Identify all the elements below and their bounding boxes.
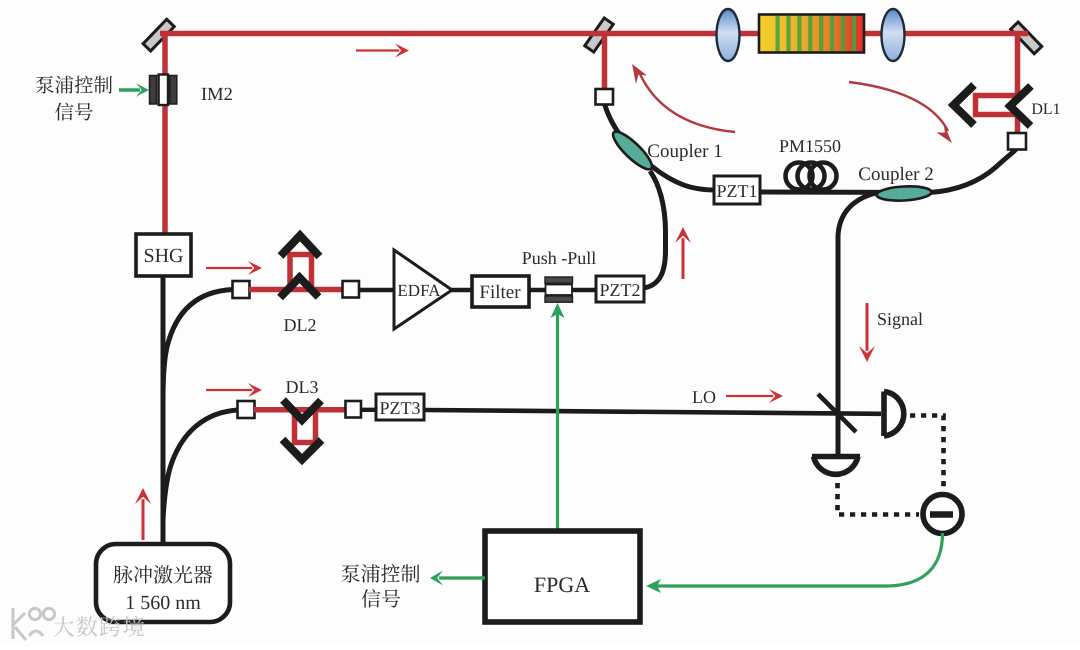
- svg-text:SHG: SHG: [143, 245, 183, 267]
- arrow: up beside PZT2 fiber (red): [675, 227, 691, 279]
- wire: EDFA to Filter: [450, 288, 474, 292]
- wire: DL3 to PZT3: [361, 408, 378, 412]
- svg-text:LO: LO: [692, 387, 716, 407]
- wire: red beam M4 down to DL1: [1015, 36, 1021, 98]
- arrow: curved counter-clockwise (left, red): [632, 64, 735, 132]
- arrowhead: green into FPGA right: [646, 579, 661, 593]
- wire: DL2 to EDFA: [359, 288, 396, 292]
- mirror M2 (output coupler, top center): [585, 18, 614, 52]
- arrow: Signal down (red): [859, 303, 875, 362]
- arrow: into DL3 (red): [206, 383, 262, 397]
- svg-text:Coupler 2: Coupler 2: [858, 164, 933, 185]
- svg-text:1 560 nm: 1 560 nm: [125, 592, 201, 614]
- wire: PZT1 to Coupler2 fiber: [760, 190, 932, 196]
- SHG box: [136, 234, 191, 276]
- connector: DL2 left: [233, 281, 250, 298]
- connector: DL3 left: [238, 401, 255, 418]
- fiber: signal branch down from junction: [838, 193, 876, 457]
- svg-text:DL2: DL2: [284, 315, 317, 335]
- svg-text:Signal: Signal: [877, 309, 923, 329]
- label: pulsed laser (Chinese): [114, 565, 213, 583]
- beamsplitter: [818, 394, 856, 432]
- photodetector PD2 (bottom): [812, 457, 860, 475]
- svg-text:FPGA: FPGA: [534, 572, 590, 597]
- arrow: LO direction (red): [726, 389, 783, 403]
- label: pump control (Chinese) line1: [36, 75, 112, 93]
- arrow: up from laser (red): [135, 488, 151, 540]
- watermark text: [53, 616, 144, 637]
- arrowhead: green into push-pull: [551, 303, 565, 318]
- arrow: into DL2 (red): [206, 261, 262, 275]
- connector: DL1 bottom: [1008, 133, 1026, 150]
- prism: DL2 bottom retroreflector: [280, 278, 319, 298]
- arrow: curved clockwise (right, red): [849, 82, 952, 143]
- arrow: pump control signal into IM2 (green): [119, 83, 149, 97]
- fiber coil PM1550: [786, 163, 837, 190]
- svg-text:Push -Pull: Push -Pull: [522, 248, 597, 268]
- connector: DL2 right: [343, 281, 360, 298]
- modulator IM2: [150, 75, 177, 106]
- amplifier EDFA: [394, 250, 452, 329]
- mirror M4 (top right): [1011, 22, 1042, 54]
- push-pull fiber stretcher: [545, 277, 573, 302]
- photodetector PD1 (right): [884, 392, 904, 437]
- svg-text:DL1: DL1: [1031, 101, 1060, 118]
- beam: DL2 red path: [249, 255, 343, 293]
- arrow pump direction top: [356, 44, 409, 58]
- lens L2: [882, 9, 905, 61]
- PZT2 box: [596, 276, 644, 302]
- wire: Filter to Push-Pull: [529, 288, 547, 292]
- svg-text:PZT1: PZT1: [716, 181, 757, 201]
- connector: below M2: [596, 89, 614, 105]
- prism: DL2 top retroreflector: [281, 236, 320, 257]
- beam: DL3 red path: [254, 408, 347, 443]
- svg-text:PZT3: PZT3: [379, 398, 420, 418]
- Filter box: [472, 276, 529, 307]
- wire: red beam M2 down to fiber connector: [602, 35, 608, 92]
- svg-text:PM1550: PM1550: [779, 136, 841, 156]
- wire: black line SHG to laser: [161, 276, 166, 546]
- wire: main pump beam (top, red): [160, 31, 1028, 37]
- svg-text:DL3: DL3: [286, 377, 319, 397]
- label: signal (Chinese) line2: [55, 102, 93, 120]
- fiber: laser to DL3 connector: [163, 410, 238, 520]
- wire: red beam M1 down to SHG: [162, 34, 168, 237]
- PZT3 box: [376, 394, 424, 420]
- svg-text:EDFA: EDFA: [397, 281, 441, 300]
- mirror M1 (top left): [143, 19, 174, 51]
- FPGA box: [485, 531, 640, 622]
- watermark logo: [13, 608, 55, 640]
- svg-text:PZT2: PZT2: [599, 280, 640, 300]
- label: signal (Chinese) near FPGA: [362, 589, 401, 608]
- beam: DL1 red path: [976, 96, 1018, 137]
- wire: green FPGA to push-pull: [556, 312, 559, 531]
- fiber: connector through Coupler1 to PZT1: [605, 104, 715, 190]
- prism: DL1 left retroreflector: [954, 85, 975, 125]
- arrow: pump control out of FPGA (green): [430, 571, 485, 586]
- prism: DL1 right retroreflector: [1010, 86, 1031, 126]
- wire: green subtractor to FPGA: [655, 533, 943, 586]
- wire: LO line PZT3 to beamsplitter: [424, 410, 881, 414]
- fiber: laser to DL2 connector: [163, 290, 233, 401]
- dotted wire: PD2 to subtractor: [838, 483, 920, 515]
- svg-text:Filter: Filter: [479, 282, 521, 303]
- wire: Push-Pull to PZT2: [572, 288, 598, 292]
- dotted wire: PD1 to subtractor: [910, 416, 944, 493]
- subtractor (balanced detector): [923, 495, 962, 534]
- svg-text:IM2: IM2: [201, 85, 233, 105]
- prism: DL3 top retroreflector: [283, 400, 321, 420]
- lens L1: [717, 9, 740, 61]
- connector: DL3 right: [346, 401, 362, 418]
- fiber: Coupler2 up to DL1 connector: [930, 148, 1017, 193]
- coupler C1 (teal): [609, 127, 657, 174]
- svg-text:Coupler 1: Coupler 1: [647, 141, 722, 162]
- prism: DL3 bottom retroreflector: [283, 440, 322, 460]
- laser box (pulsed laser): [96, 544, 230, 622]
- PZT1 box: [714, 176, 760, 204]
- coupler C2 (teal): [876, 185, 932, 202]
- gain crystal (Yb fiber / striped): [759, 15, 864, 53]
- label: pump control (Chinese) near FPGA: [341, 564, 419, 583]
- fiber: PZT2 up to coupler1 junction: [644, 171, 666, 288]
